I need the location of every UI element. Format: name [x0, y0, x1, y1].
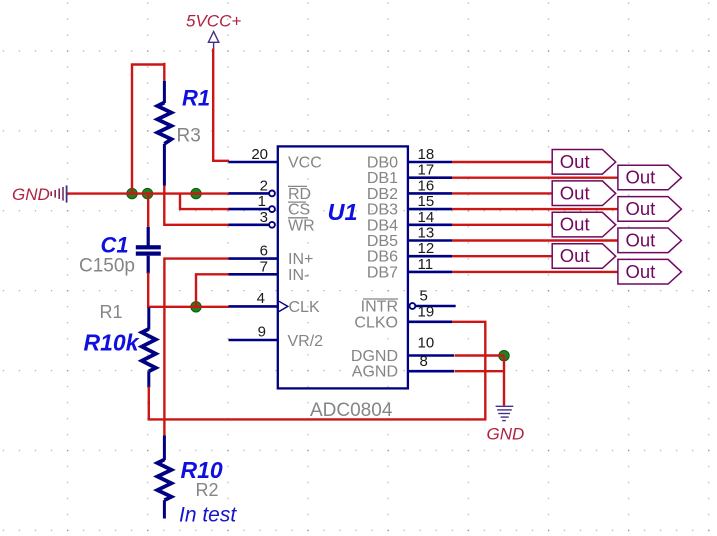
svg-text:2: 2	[260, 177, 268, 194]
svg-text:1: 1	[258, 193, 266, 210]
port Out DB0	[552, 150, 616, 175]
wire DB5 to out port	[452, 239, 618, 241]
svg-text:IN+: IN+	[288, 251, 313, 268]
wire DB7 to out port	[452, 271, 618, 273]
svg-text:16: 16	[418, 177, 435, 194]
svg-text:GND: GND	[487, 425, 525, 444]
pin 10 DGND	[351, 335, 454, 366]
svg-text:DB5: DB5	[367, 233, 398, 250]
svg-text:8: 8	[420, 353, 428, 370]
svg-text:4: 4	[257, 290, 265, 307]
svg-text:Out: Out	[560, 151, 590, 172]
svg-text:7: 7	[260, 258, 268, 275]
wire VCC vertical from power port to pin 20	[213, 49, 229, 161]
ground symbol	[496, 406, 514, 420]
wire GND rail	[68, 192, 230, 194]
pin 2 RD	[229, 177, 312, 203]
wire ground vertical	[503, 356, 505, 406]
svg-text:INTR: INTR	[361, 299, 398, 316]
svg-text:15: 15	[418, 193, 435, 210]
svg-text:R3: R3	[177, 126, 201, 147]
resistor R3 body	[157, 81, 171, 186]
svg-text:RD: RD	[288, 186, 311, 203]
svg-text:In test: In test	[179, 504, 237, 527]
svg-text:5: 5	[420, 288, 428, 305]
port Out DB6	[552, 244, 616, 269]
svg-text:DB1: DB1	[367, 170, 398, 187]
svg-text:R2: R2	[196, 480, 219, 500]
svg-text:C1: C1	[101, 233, 129, 258]
pin 3 WR	[229, 209, 315, 235]
svg-text:Out: Out	[626, 261, 656, 282]
pin 4 CLK	[229, 290, 320, 316]
svg-text:U1: U1	[328, 199, 358, 225]
svg-text:Out: Out	[560, 214, 590, 235]
svg-text:9: 9	[258, 324, 266, 341]
wire capacitor bottom to CLK	[148, 273, 229, 307]
svg-text:13: 13	[418, 225, 435, 242]
svg-text:Out: Out	[626, 167, 656, 188]
svg-text:3: 3	[260, 209, 268, 226]
svg-text:6: 6	[260, 243, 268, 260]
svg-text:AGND: AGND	[352, 364, 398, 381]
svg-text:19: 19	[418, 303, 435, 320]
svg-text:R10k: R10k	[84, 330, 140, 356]
junction on rail at left loop	[127, 188, 137, 198]
pin 17 DB1	[367, 162, 452, 188]
svg-text:10: 10	[418, 335, 435, 352]
pin 9 VR/2	[229, 324, 324, 351]
svg-text:DB3: DB3	[367, 202, 398, 219]
svg-text:20: 20	[251, 146, 268, 163]
svg-text:ADC0804: ADC0804	[310, 400, 393, 421]
svg-text:DB7: DB7	[367, 264, 398, 281]
svg-text:12: 12	[418, 240, 435, 257]
svg-text:11: 11	[418, 256, 434, 273]
port Out DB2	[552, 181, 616, 206]
junction on rail right	[191, 188, 201, 198]
svg-text:DB0: DB0	[367, 155, 398, 172]
pin 12 DB6	[367, 240, 452, 266]
svg-text:Out: Out	[560, 182, 590, 203]
pin 7 IN-	[229, 258, 310, 284]
port Out DB4	[552, 212, 616, 237]
pin 5 INTR	[361, 288, 456, 316]
wire DB0 to out port	[452, 161, 552, 163]
port Out DB3	[618, 197, 682, 222]
pin 8 AGND	[352, 353, 454, 381]
svg-text:17: 17	[418, 162, 435, 179]
junction at DGND	[499, 351, 509, 361]
svg-text:CLK: CLK	[289, 299, 320, 316]
svg-text:5VCC+: 5VCC+	[186, 12, 241, 31]
power port 5VCC+ arrow symbol	[208, 32, 218, 49]
wire DGND to ground	[455, 354, 505, 356]
pin 16 DB2	[367, 177, 452, 203]
svg-text:CS: CS	[288, 202, 310, 219]
port Out DB5	[618, 228, 682, 253]
wire AGND to ground	[455, 370, 505, 372]
svg-text:14: 14	[418, 209, 435, 226]
wire DB3 to out port	[452, 208, 618, 210]
svg-text:CLKO: CLKO	[354, 314, 398, 331]
wire IN+ branch down to R10	[164, 259, 229, 437]
svg-text:VR/2: VR/2	[288, 333, 324, 350]
svg-text:R1: R1	[182, 86, 210, 111]
junction on rail at capacitor branch	[142, 188, 152, 198]
pin 11 DB7	[367, 256, 452, 282]
wire R10k bottom to CLKO loop	[149, 322, 486, 420]
svg-text:WR: WR	[288, 217, 315, 234]
wire DB6 to out port	[452, 255, 552, 257]
wire DB1 to out port	[452, 176, 618, 178]
wire stub above resistor R3	[163, 63, 165, 82]
IC U1 ADC0804 body	[278, 146, 408, 388]
resistor R10 body	[157, 436, 171, 519]
svg-text:IN-: IN-	[288, 267, 309, 284]
svg-text:Out: Out	[626, 198, 656, 219]
pin 6 IN+	[229, 243, 314, 269]
pin 20 VCC	[229, 146, 322, 172]
power port GND bar symbol	[51, 185, 66, 202]
svg-text:C150p: C150p	[79, 256, 135, 277]
svg-text:Out: Out	[560, 245, 590, 266]
pin 14 DB4	[367, 209, 452, 235]
pin 19 CLKO	[354, 303, 452, 331]
wire DB4 to out port	[452, 224, 552, 226]
pin 1 CS	[229, 193, 311, 219]
svg-text:GND: GND	[12, 185, 50, 204]
capacitor C1	[136, 227, 161, 274]
svg-text:DB6: DB6	[367, 249, 398, 266]
svg-text:DB2: DB2	[367, 186, 398, 203]
resistor R10k body	[142, 308, 156, 388]
wire capacitor branch from rail	[147, 194, 149, 228]
pin 18 DB0	[367, 146, 452, 172]
svg-text:18: 18	[418, 146, 435, 163]
wire DB2 to out port	[452, 192, 552, 194]
svg-text:DB4: DB4	[367, 217, 398, 234]
svg-text:R1: R1	[100, 302, 123, 322]
wire left loop vertical	[132, 65, 164, 194]
port Out DB1	[618, 165, 682, 190]
wire CS branch	[180, 194, 229, 210]
wire WR branch (through resistor bottom)	[164, 186, 229, 225]
wire IN- branch	[196, 274, 229, 307]
svg-text:Out: Out	[626, 229, 656, 250]
svg-text:DGND: DGND	[351, 348, 398, 365]
port Out DB7	[618, 259, 682, 284]
svg-text:VCC: VCC	[288, 155, 322, 172]
pin 13 DB5	[367, 225, 452, 251]
junction on CLK wire	[191, 302, 201, 312]
pin 15 DB3	[367, 193, 452, 219]
